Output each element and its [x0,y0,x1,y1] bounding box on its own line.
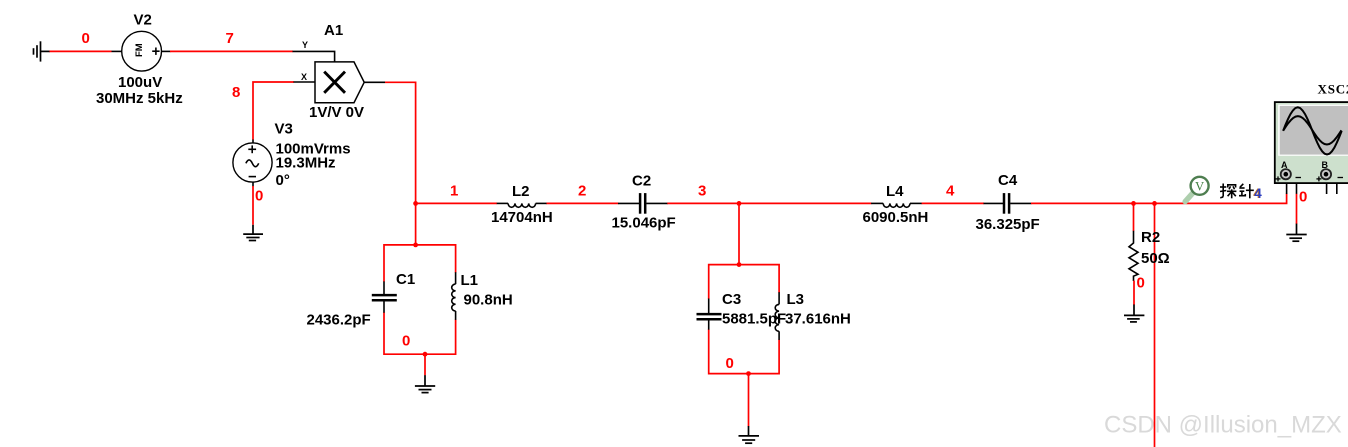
svg-text:36.325pF: 36.325pF [976,216,1040,233]
multiplier A1 [315,62,385,103]
voltage source V3 pins [252,140,254,145]
junction tank2 top [737,262,742,267]
svg-text:2: 2 [578,183,586,200]
ground GND1 (left, rotated) [34,41,51,61]
voltage source V2 pins [112,50,122,52]
scope pin A+ [1286,183,1288,194]
oscilloscope screen [1280,106,1348,155]
capacitor C1 [372,281,397,312]
resistor R2 [1129,231,1138,281]
wire main bus segment node3 [667,202,739,204]
svg-text:0°: 0° [276,172,290,189]
A1 pin Y wire [293,51,335,62]
junction tank1 bottom [423,352,428,357]
svg-text:0: 0 [255,188,263,205]
scope pin B+ [1326,183,1328,194]
ground GND4 (under tank2) [739,426,760,443]
svg-text:0: 0 [402,333,410,350]
probe label 探针 (drawn glyphs) [1220,184,1236,199]
svg-text:4: 4 [1254,186,1262,201]
svg-text:50Ω: 50Ω [1141,250,1170,267]
oscilloscope terminal B [1321,169,1331,179]
wire bus to tank2 [738,203,740,265]
svg-text:V2: V2 [134,12,152,29]
wire main bus to L4 [739,202,872,204]
svg-text:XSC2: XSC2 [1318,82,1348,97]
terminal polarity marks [1276,176,1344,181]
inductor L2 [497,203,547,207]
svg-text:7: 7 [226,30,234,47]
wire tank2 to GND4 [748,374,750,427]
junction bus/branch down [1152,201,1157,206]
svg-text:C3: C3 [722,291,741,308]
svg-text:1V/V 0V: 1V/V 0V [309,104,364,121]
junction tank1 top [413,243,418,248]
oscilloscope terminal A [1281,169,1291,179]
svg-text:8: 8 [232,84,240,101]
svg-text:0: 0 [82,30,90,47]
svg-text:37.616nH: 37.616nH [785,311,851,328]
svg-text:0: 0 [1137,275,1145,292]
svg-text:14704nH: 14704nH [491,209,553,226]
wire bus to tank1 [415,203,417,245]
scope pin A- [1296,183,1298,194]
wire net 8 (V3 to A1 X input) [253,82,294,140]
wire main bus to scope [1155,194,1287,204]
ground GND6 (under scope) [1286,224,1306,242]
oscilloscope XSC2 body [1275,102,1348,183]
svg-text:C1: C1 [396,271,415,288]
inductor L3 [775,292,779,340]
A1 pin X wire [294,81,316,83]
svg-text:Y: Y [302,40,308,50]
wire branch down (off-canvas) [1154,203,1156,447]
wire tank1 to GND3 [424,354,426,375]
voltage source V3 (AC) [233,143,272,182]
wire A1 output to main bus [385,82,416,203]
wire net 0 (GND1 to V2) [50,50,112,52]
svg-text:1: 1 [450,183,458,200]
wire R2 to GND5 [1133,281,1135,305]
svg-text:90.8nH: 90.8nH [464,292,513,309]
junction bus/R2 [1131,201,1136,206]
svg-text:A1: A1 [324,22,343,39]
wire net 7 (V2 to A1 Y input) [170,50,293,52]
wire A- to GND6 [1296,194,1298,224]
wire bus to R2 [1133,203,1135,231]
ground GND3 (under tank1) [415,375,435,392]
svg-text:4: 4 [946,183,955,200]
capacitor C4 [984,193,1032,214]
tank1 frame wires [384,245,456,354]
svg-text:X: X [301,72,307,82]
capacitor C2 [618,193,668,214]
svg-text:2436.2pF: 2436.2pF [307,312,371,329]
voltage source V2 (FM source) [122,31,162,71]
ground GND5 (under R2) [1124,305,1144,322]
svg-text:30MHz 5kHz: 30MHz 5kHz [96,90,183,107]
svg-text:0: 0 [1299,189,1307,206]
ground GND2 (under V3) [243,225,263,241]
svg-text:R2: R2 [1141,229,1160,246]
svg-text:C4: C4 [998,172,1018,189]
svg-text:3: 3 [698,183,706,200]
svg-text:15.046pF: 15.046pF [612,215,676,232]
svg-text:V3: V3 [275,121,293,138]
oscilloscope screen frame [1278,105,1348,156]
wire main bus segment node4 [922,202,984,204]
junction tank2 bottom [746,371,751,376]
inductor L4 [871,203,922,207]
oscilloscope waveform B [1283,116,1341,144]
wire main bus segment node2 [547,202,619,204]
junction bus/tank1 [413,201,418,206]
scope pin B- [1336,183,1338,194]
capacitor C3 [697,299,722,330]
junction bus/tank2 [737,201,742,206]
svg-text:V: V [1195,180,1204,194]
inductor L1 [452,272,456,320]
probe 探针4 handle [1185,193,1193,202]
svg-text:C2: C2 [632,173,651,190]
svg-text:L3: L3 [787,291,805,308]
svg-text:19.3MHz: 19.3MHz [276,155,336,172]
wire V3 to GND2 [252,186,254,225]
svg-text:0: 0 [726,355,734,372]
svg-text:L2: L2 [512,183,530,200]
svg-text:100uV: 100uV [118,74,162,91]
wire main bus segment node1 [416,202,497,204]
svg-text:FM: FM [134,43,145,57]
oscilloscope waveform A [1283,107,1342,154]
svg-text:L4: L4 [886,183,904,200]
svg-text:L1: L1 [461,272,479,289]
wire main bus to R2 junction [1031,202,1155,204]
svg-text:CSDN @Illusion_MZX: CSDN @Illusion_MZX [1104,412,1342,439]
svg-text:6090.5nH: 6090.5nH [863,209,929,226]
probe 探针4 circle [1191,177,1209,195]
tank2 frame wires [709,265,779,374]
